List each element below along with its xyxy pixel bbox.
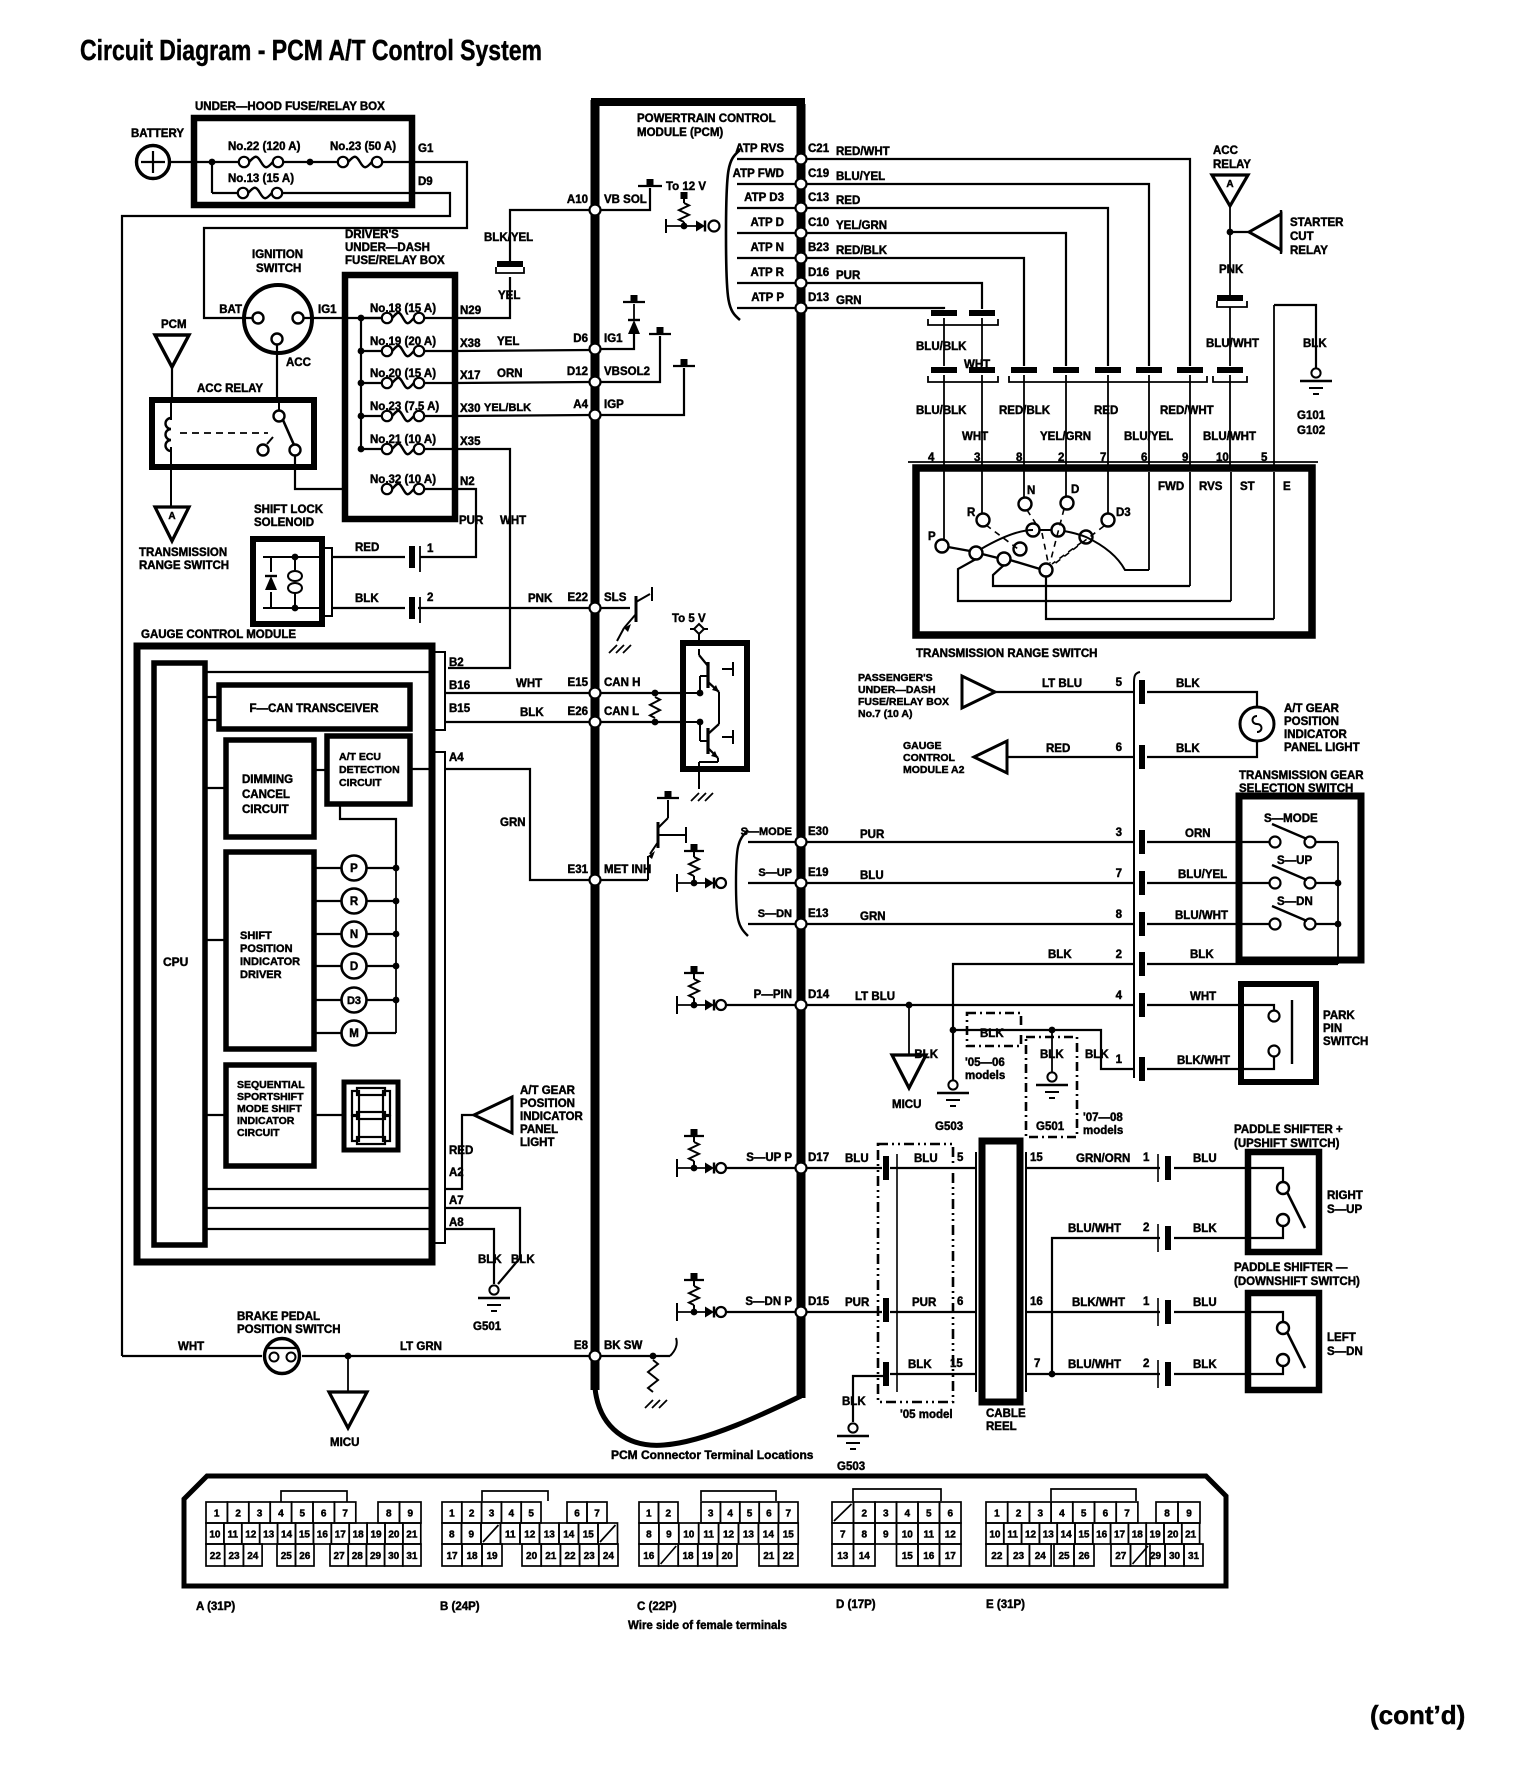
12V test harness — [665, 219, 667, 233]
fuse No.18 (15 A) terminal N29 — [361, 317, 382, 319]
svg-text:5: 5 — [926, 1508, 932, 1519]
svg-text:23: 23 — [584, 1551, 596, 1562]
svg-text:12: 12 — [723, 1529, 735, 1540]
7-segment display box — [344, 1082, 398, 1150]
wire BLK to paddle- — [1174, 1373, 1248, 1375]
wire WHT pin4 to park pin switch — [1147, 1004, 1255, 1006]
svg-text:4: 4 — [1059, 1508, 1065, 1519]
svg-text:FWD: FWD — [1158, 481, 1184, 493]
svg-text:MODULE (PCM): MODULE (PCM) — [637, 127, 723, 139]
wire N2 PUR to shift lock connector 1 — [420, 489, 476, 557]
svg-text:BLU: BLU — [845, 1153, 869, 1165]
svg-text:ORN: ORN — [1185, 828, 1211, 840]
svg-text:1: 1 — [994, 1508, 1000, 1519]
svg-text:9: 9 — [883, 1529, 889, 1540]
svg-text:ST: ST — [1240, 481, 1255, 493]
svg-text:2: 2 — [861, 1508, 867, 1519]
relay coil — [170, 400, 172, 420]
svg-text:2: 2 — [1116, 949, 1122, 961]
svg-text:A: A — [1226, 179, 1233, 190]
svg-text:X17: X17 — [460, 370, 480, 382]
svg-text:POSITION: POSITION — [1284, 716, 1339, 728]
CAN termination resistor — [600, 692, 683, 694]
svg-text:ORN: ORN — [497, 368, 523, 380]
svg-text:21: 21 — [763, 1551, 775, 1562]
svg-text:25: 25 — [281, 1551, 293, 1562]
F-CAN transceiver box — [219, 685, 410, 729]
svg-text:10: 10 — [989, 1529, 1001, 1540]
svg-text:23: 23 — [1013, 1551, 1025, 1562]
svg-text:UNDER—HOOD FUSE/RELAY BOX: UNDER—HOOD FUSE/RELAY BOX — [195, 101, 385, 113]
wire D12 VBSOL2 to power — [600, 336, 660, 382]
S-UP pull-up — [684, 850, 704, 852]
svg-text:ATP FWD: ATP FWD — [733, 168, 784, 180]
wire LT GRN to E8 — [302, 1355, 590, 1357]
wire LT BLU from D14 — [806, 1004, 1134, 1006]
fuse No.13 (15 A) — [211, 162, 213, 193]
svg-text:ATP D: ATP D — [751, 217, 784, 229]
wire RED/BLK to range switch pin — [806, 258, 1024, 366]
svg-text:C21: C21 — [808, 143, 830, 155]
svg-text:LT BLU: LT BLU — [855, 991, 895, 1003]
svg-text:9: 9 — [407, 1508, 413, 1519]
PCM terminal D13 ATP P — [737, 307, 796, 309]
svg-text:8: 8 — [386, 1508, 392, 1519]
range switch contact N — [1019, 498, 1032, 511]
wire 5 column — [1273, 305, 1275, 468]
wire X38 YEL to D6 — [455, 350, 590, 351]
wire A8 BLK — [205, 1228, 432, 1230]
svg-text:RVS: RVS — [1199, 481, 1223, 493]
svg-text:PUR: PUR — [845, 1297, 870, 1309]
svg-text:30: 30 — [1169, 1551, 1181, 1562]
wire BLK/WHT pin1 to park pin switch — [1147, 1068, 1255, 1070]
svg-text:E26: E26 — [568, 706, 588, 718]
svg-text:2: 2 — [1143, 1358, 1149, 1370]
svg-text:3: 3 — [883, 1508, 889, 1519]
svg-text:UNDER—DASH: UNDER—DASH — [345, 242, 430, 254]
wire BLU inside to cable reel 5 — [890, 1167, 977, 1169]
svg-text:16: 16 — [643, 1551, 655, 1562]
svg-text:BLK: BLK — [908, 1359, 932, 1371]
wire PUR to '05 connector — [806, 1311, 882, 1313]
svg-text:25: 25 — [1058, 1551, 1070, 1562]
svg-text:E22: E22 — [568, 592, 588, 604]
powertrain control module (PCM) box — [591, 100, 600, 1390]
svg-text:5: 5 — [1081, 1508, 1087, 1519]
svg-text:BLK: BLK — [1176, 678, 1200, 690]
svg-text:21: 21 — [545, 1551, 557, 1562]
svg-text:GAUGE CONTROL MODULE: GAUGE CONTROL MODULE — [141, 629, 296, 641]
svg-text:BLK: BLK — [914, 1049, 938, 1061]
svg-text:RED: RED — [1046, 743, 1070, 755]
svg-text:YEL: YEL — [498, 290, 520, 302]
wire A7 BLK — [205, 1207, 432, 1209]
svg-text:E8: E8 — [574, 1340, 589, 1352]
svg-text:RED/BLK: RED/BLK — [836, 245, 888, 257]
svg-text:BLU/BLK: BLU/BLK — [916, 341, 967, 353]
svg-text:FUSE/RELAY BOX: FUSE/RELAY BOX — [345, 255, 445, 267]
E8 internal resistor — [600, 1355, 670, 1357]
svg-text:P: P — [928, 531, 936, 543]
svg-text:DIMMING: DIMMING — [242, 774, 293, 786]
svg-text:A/T GEAR: A/T GEAR — [520, 1085, 576, 1097]
svg-text:6: 6 — [1103, 1508, 1109, 1519]
svg-text:26: 26 — [1078, 1551, 1090, 1562]
shift lock solenoid — [253, 539, 322, 624]
svg-text:20: 20 — [388, 1529, 400, 1540]
svg-text:E13: E13 — [808, 908, 828, 920]
wire GRN/ORN reel 15 to paddle+ pin1 — [1026, 1167, 1160, 1169]
svg-text:WHT: WHT — [178, 1341, 204, 1353]
ground G501 — [489, 1285, 498, 1294]
svg-text:5: 5 — [300, 1508, 306, 1519]
svg-text:DRIVER'S: DRIVER'S — [345, 229, 399, 241]
svg-text:REEL: REEL — [986, 1421, 1017, 1433]
svg-text:15: 15 — [299, 1529, 311, 1540]
svg-text:2: 2 — [1016, 1508, 1022, 1519]
svg-text:(cont’d): (cont’d) — [1370, 1700, 1465, 1730]
starter cut relay arrow — [1249, 214, 1281, 250]
PCM terminal C21 ATP RVS — [737, 158, 796, 160]
svg-text:BLU/BLK: BLU/BLK — [916, 405, 967, 417]
svg-text:CABLE: CABLE — [986, 1408, 1026, 1420]
wire relay switch to fuse No.32 — [295, 455, 345, 489]
PCM connector triangle — [155, 335, 189, 367]
svg-text:BLK: BLK — [1048, 949, 1072, 961]
svg-text:PNK: PNK — [528, 593, 553, 605]
svg-text:SOLENOID: SOLENOID — [254, 517, 314, 529]
PCM terminal E15 CAN H — [590, 688, 601, 699]
svg-text:RELAY: RELAY — [1290, 245, 1328, 257]
svg-text:11: 11 — [703, 1529, 714, 1540]
svg-text:PADDLE SHIFTER —: PADDLE SHIFTER — — [1234, 1262, 1348, 1274]
MET INH transistor Q2 — [600, 879, 648, 881]
svg-text:BATTERY: BATTERY — [131, 128, 184, 140]
svg-text:BLU/WHT: BLU/WHT — [1068, 1223, 1121, 1235]
PCM terminal E26 CAN L — [590, 717, 601, 728]
wire BLU/WHT pin8 to S-DN switch — [1147, 923, 1270, 925]
svg-text:D: D — [350, 961, 358, 973]
wire BLK inside to reel 15 — [890, 1373, 977, 1375]
svg-text:RELAY: RELAY — [1213, 159, 1251, 171]
svg-text:3: 3 — [708, 1508, 714, 1519]
svg-text:14: 14 — [281, 1529, 293, 1540]
svg-text:7: 7 — [1034, 1358, 1040, 1370]
svg-text:G503: G503 — [935, 1121, 963, 1133]
wire B2 internal — [205, 671, 432, 673]
svg-text:PASSENGER'S: PASSENGER'S — [858, 672, 933, 684]
PCM terminal D17 S-UP P — [684, 1135, 704, 1137]
svg-text:S—DN: S—DN — [1277, 896, 1313, 908]
svg-text:22: 22 — [991, 1551, 1003, 1562]
svg-text:PUR: PUR — [836, 270, 861, 282]
connector pin 3 — [1139, 830, 1145, 854]
svg-text:6: 6 — [766, 1508, 772, 1519]
wire BLU to selection switch — [806, 882, 1134, 884]
svg-text:CIRCUIT: CIRCUIT — [339, 777, 382, 789]
svg-text:PARK: PARK — [1323, 1010, 1355, 1022]
svg-text:S—UP P: S—UP P — [746, 1152, 792, 1164]
wire CPU to dimming — [205, 787, 226, 789]
svg-text:ATP D3: ATP D3 — [744, 192, 784, 204]
svg-text:Circuit Diagram - PCM A/T Cont: Circuit Diagram - PCM A/T Control System — [80, 35, 542, 67]
svg-text:S—UP: S—UP — [1277, 855, 1312, 867]
wire reel 7 to BLU/WHT — [1026, 1373, 1160, 1375]
svg-text:CIRCUIT: CIRCUIT — [242, 804, 289, 816]
svg-text:31: 31 — [1188, 1551, 1200, 1562]
range switch contact R — [977, 514, 990, 527]
svg-text:GAUGE: GAUGE — [903, 740, 942, 752]
svg-text:26: 26 — [299, 1551, 311, 1562]
connector pin 2 — [1139, 952, 1145, 976]
svg-text:BLU/WHT: BLU/WHT — [1206, 338, 1259, 350]
svg-text:13: 13 — [743, 1529, 755, 1540]
svg-text:BLK: BLK — [1085, 1049, 1109, 1061]
svg-text:C13: C13 — [808, 192, 829, 204]
svg-text:RED: RED — [836, 195, 860, 207]
svg-text:RED/BLK: RED/BLK — [999, 405, 1051, 417]
wire BLU to paddle+ — [1174, 1167, 1248, 1169]
svg-text:4: 4 — [1116, 990, 1123, 1002]
CAN driver transistor box U1 — [683, 643, 747, 769]
PCM wavy bottom — [595, 1388, 801, 1445]
svg-text:BLU: BLU — [914, 1153, 938, 1165]
svg-text:PANEL LIGHT: PANEL LIGHT — [1284, 742, 1360, 754]
svg-text:PUR: PUR — [860, 829, 885, 841]
svg-text:12: 12 — [1025, 1529, 1037, 1540]
svg-text:16: 16 — [1096, 1529, 1108, 1540]
svg-text:RIGHT: RIGHT — [1327, 1190, 1363, 1202]
svg-text:N29: N29 — [460, 305, 481, 317]
svg-text:PCM Connector Terminal Locatio: PCM Connector Terminal Locations — [611, 1448, 814, 1462]
svg-text:22: 22 — [210, 1551, 222, 1562]
svg-text:15: 15 — [1030, 1152, 1043, 1164]
svg-text:12: 12 — [245, 1529, 257, 1540]
svg-text:12: 12 — [524, 1529, 536, 1540]
svg-text:4: 4 — [904, 1508, 910, 1519]
svg-text:A4: A4 — [573, 399, 588, 411]
fuse No.19 (20 A) terminal X38 — [361, 350, 382, 352]
wire D6 IG1 diode to power — [600, 334, 634, 349]
svg-text:CUT: CUT — [1290, 231, 1314, 243]
svg-text:MET INH: MET INH — [604, 864, 651, 876]
wire BLU/YEL to range switch pin — [806, 184, 1149, 366]
MICU triangle (brake) — [347, 1356, 349, 1392]
lamp D3 — [314, 999, 342, 1001]
svg-text:8: 8 — [1164, 1508, 1170, 1519]
wire BLK pin5 to panel light — [1147, 692, 1257, 707]
svg-text:models: models — [1083, 1125, 1123, 1137]
wire X17 ORN to D12 — [455, 382, 590, 383]
svg-text:SPORTSHIFT: SPORTSHIFT — [237, 1091, 304, 1103]
ground G101 G102 — [1311, 368, 1320, 377]
svg-text:IG1: IG1 — [318, 304, 337, 316]
svg-text:SHIFT LOCK: SHIFT LOCK — [254, 504, 324, 516]
passenger's under-dash fuse/relay box arrow — [962, 676, 995, 708]
svg-text:12: 12 — [945, 1529, 957, 1540]
svg-text:6: 6 — [957, 1296, 963, 1308]
wire sportshift to display — [314, 1114, 344, 1116]
fuse No.22 (120 A) — [194, 161, 239, 163]
svg-text:X35: X35 — [460, 436, 481, 448]
svg-text:15: 15 — [583, 1529, 595, 1540]
svg-text:15: 15 — [783, 1529, 795, 1540]
5V tap diamond — [694, 624, 704, 634]
svg-text:POSITION SWITCH: POSITION SWITCH — [237, 1324, 341, 1336]
svg-text:No.23 (50 A): No.23 (50 A) — [330, 141, 396, 153]
svg-text:7: 7 — [840, 1529, 846, 1540]
PCM terminal E13 S—DN — [748, 923, 796, 925]
svg-text:A/T GEAR: A/T GEAR — [1284, 703, 1340, 715]
svg-text:To 5 V: To 5 V — [672, 613, 706, 625]
wire ACC to relay — [276, 345, 278, 400]
wire BLK to connector 2 — [332, 607, 405, 609]
svg-text:CANCEL: CANCEL — [242, 789, 290, 801]
svg-text:5: 5 — [747, 1508, 753, 1519]
svg-text:BLK: BLK — [1176, 743, 1200, 755]
svg-text:20: 20 — [722, 1551, 734, 1562]
transmission range switch box — [908, 461, 1318, 463]
svg-text:PCM: PCM — [161, 319, 187, 331]
svg-text:19: 19 — [1150, 1529, 1162, 1540]
svg-text:3: 3 — [489, 1508, 495, 1519]
svg-text:6: 6 — [947, 1508, 953, 1519]
svg-text:G102: G102 — [1297, 425, 1325, 437]
S-MODE bracket — [736, 830, 748, 936]
svg-text:13: 13 — [544, 1529, 556, 1540]
svg-text:S—UP: S—UP — [1327, 1204, 1362, 1216]
svg-text:M: M — [349, 1028, 359, 1040]
svg-text:18: 18 — [353, 1529, 365, 1540]
svg-text:S—MODE: S—MODE — [741, 826, 792, 838]
svg-text:TRANSMISSION GEAR: TRANSMISSION GEAR — [1239, 770, 1364, 782]
svg-text:'05—06: '05—06 — [965, 1057, 1005, 1069]
svg-text:SWITCH: SWITCH — [1323, 1036, 1368, 1048]
svg-text:3: 3 — [257, 1508, 263, 1519]
svg-text:11: 11 — [228, 1529, 239, 1540]
solenoid diode — [270, 557, 272, 572]
svg-text:CAN L: CAN L — [604, 706, 639, 718]
svg-text:YEL: YEL — [497, 336, 519, 348]
svg-text:4: 4 — [727, 1508, 733, 1519]
ATP bracket — [726, 150, 740, 320]
under-hood fuse/relay box — [194, 118, 412, 205]
svg-text:13: 13 — [837, 1551, 849, 1562]
PCM terminal A4 IGP — [590, 410, 601, 421]
svg-text:ACC: ACC — [1213, 145, 1238, 157]
svg-text:GRN: GRN — [860, 911, 886, 923]
wire ORN pin3 to S-MODE switch — [1147, 841, 1270, 843]
svg-text:1: 1 — [1143, 1152, 1150, 1164]
PCM terminal D16 ATP R — [737, 282, 796, 284]
svg-text:G1: G1 — [418, 143, 434, 155]
wire LT BLU to pin 5 — [995, 691, 1134, 693]
wire BLK lamp to pin 6 — [1147, 741, 1257, 757]
svg-text:2: 2 — [469, 1508, 475, 1519]
PCM terminal D6 IG1 — [590, 344, 601, 355]
svg-text:Wire side of female terminals: Wire side of female terminals — [628, 1620, 787, 1632]
svg-text:18: 18 — [682, 1551, 694, 1562]
PCM terminal E22 SLS — [590, 603, 601, 614]
svg-text:PNK: PNK — [1219, 264, 1244, 276]
svg-text:10: 10 — [902, 1529, 914, 1540]
svg-text:ATP RVS: ATP RVS — [735, 143, 784, 155]
svg-text:1: 1 — [1143, 1296, 1150, 1308]
svg-text:G101: G101 — [1297, 410, 1326, 422]
svg-text:BLK: BLK — [355, 593, 379, 605]
connector column — [1134, 672, 1140, 1078]
svg-text:SHIFT: SHIFT — [240, 930, 272, 942]
'05 model dashed box — [878, 1144, 953, 1402]
MICU triangle (P-PIN) — [908, 1005, 910, 1055]
svg-text:TRANSMISSION RANGE SWITCH: TRANSMISSION RANGE SWITCH — [916, 648, 1097, 660]
wire A4 GRN to E31 — [445, 769, 590, 880]
PCM terminal E19 S—UP — [748, 882, 796, 884]
svg-text:BLU/YEL: BLU/YEL — [836, 171, 885, 183]
svg-text:RED/WHT: RED/WHT — [836, 146, 890, 158]
wire YEL/GRN to range switch pin — [806, 233, 1066, 366]
rotary dashed rays — [986, 525, 1018, 549]
svg-text:B (24P): B (24P) — [440, 1601, 480, 1613]
svg-text:BLK: BLK — [842, 1396, 866, 1408]
svg-text:5: 5 — [1116, 677, 1123, 689]
svg-text:BLU/WHT: BLU/WHT — [1203, 431, 1256, 443]
svg-text:6: 6 — [321, 1508, 327, 1519]
svg-text:VBSOL2: VBSOL2 — [604, 366, 650, 378]
range switch contact P — [936, 540, 949, 553]
svg-text:C (22P): C (22P) — [637, 1601, 677, 1613]
svg-text:N2: N2 — [460, 476, 475, 488]
svg-text:B16: B16 — [449, 680, 470, 692]
wire PUR inside to reel 6 — [890, 1311, 977, 1313]
'07-08 models dashed box with G501 — [1026, 1037, 1077, 1137]
svg-text:B15: B15 — [449, 703, 471, 715]
wire CPU to F-CAN — [205, 696, 219, 698]
svg-text:R: R — [967, 507, 976, 519]
svg-text:2: 2 — [665, 1508, 671, 1519]
svg-text:15: 15 — [902, 1551, 914, 1562]
svg-text:7: 7 — [1124, 1508, 1130, 1519]
svg-text:7: 7 — [1116, 868, 1122, 880]
svg-text:S—DN: S—DN — [1327, 1346, 1363, 1358]
rotary contact drops — [943, 468, 945, 540]
wire battery to fuse box — [169, 161, 196, 163]
svg-text:D6: D6 — [573, 333, 588, 345]
svg-text:17: 17 — [335, 1529, 347, 1540]
PCM terminal E31 MET INH — [590, 875, 601, 886]
svg-text:LT GRN: LT GRN — [400, 1341, 442, 1353]
'05 connector pins — [883, 1156, 889, 1180]
wire PCM triangle to ACC relay coil — [171, 367, 173, 400]
svg-text:14: 14 — [763, 1529, 775, 1540]
svg-text:7: 7 — [342, 1508, 348, 1519]
svg-text:DETECTION: DETECTION — [339, 764, 400, 776]
svg-text:BLU: BLU — [1193, 1153, 1217, 1165]
svg-text:20: 20 — [526, 1551, 538, 1562]
PCM terminal D14 P-PIN — [684, 972, 704, 974]
svg-text:MICU: MICU — [892, 1099, 921, 1111]
svg-text:ATP P: ATP P — [751, 292, 784, 304]
svg-text:16: 16 — [923, 1551, 935, 1562]
svg-text:28: 28 — [352, 1551, 364, 1562]
A/T gear position indicator panel light lamp — [1240, 707, 1274, 741]
SLS transistor Q1 — [600, 607, 630, 609]
svg-text:1: 1 — [427, 543, 434, 555]
svg-text:WHT: WHT — [1190, 991, 1216, 1003]
svg-text:GRN: GRN — [836, 295, 862, 307]
svg-text:10: 10 — [683, 1529, 695, 1540]
